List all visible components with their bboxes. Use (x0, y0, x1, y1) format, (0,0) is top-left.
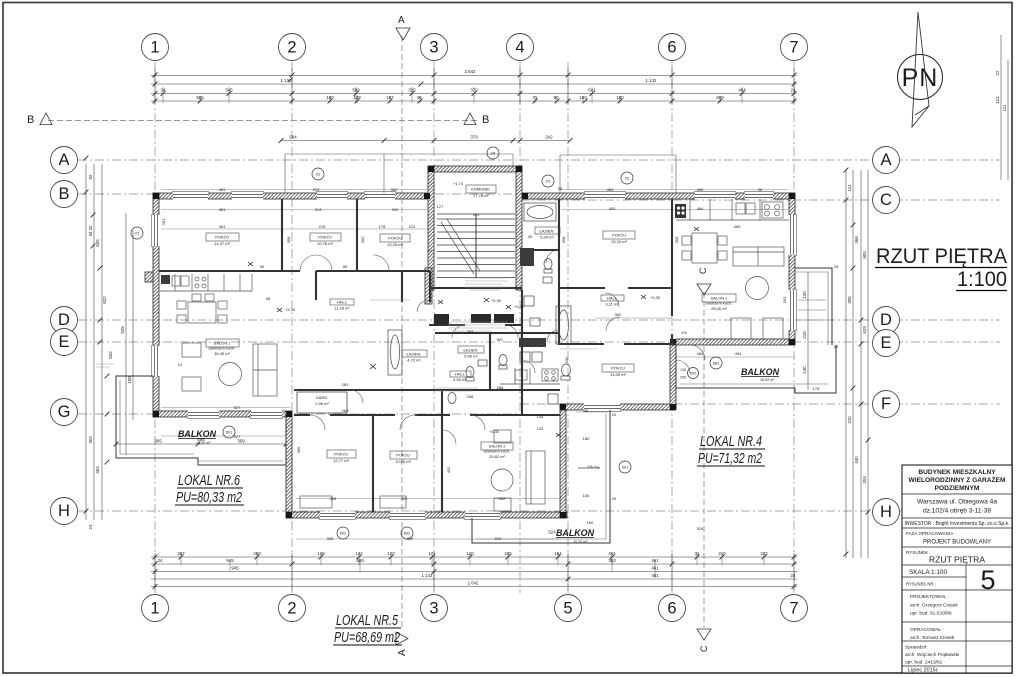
svg-text:524: 524 (697, 526, 704, 531)
svg-text:180: 180 (616, 95, 624, 100)
svg-text:ŁAZIEN.: ŁAZIEN. (406, 352, 421, 357)
BALKON label right (741, 367, 780, 382)
svg-text:24: 24 (791, 573, 796, 578)
svg-text:1 131: 1 131 (281, 78, 293, 83)
partition midblock bath row (435, 290, 560, 415)
svg-text:B: B (482, 114, 489, 126)
bubble 6 bottom (659, 595, 686, 622)
lokal4 hall bath fixtures (448, 306, 571, 404)
balcony bottom outline (472, 410, 610, 543)
svg-text:08: 08 (266, 296, 271, 301)
svg-text:325: 325 (408, 88, 416, 93)
bubble 4 top (507, 34, 534, 61)
kitchen counter lokal6 (160, 274, 252, 291)
svg-text:432: 432 (446, 466, 451, 473)
svg-text:306: 306 (327, 536, 334, 541)
svg-text:527: 527 (234, 405, 241, 410)
partition right-wing pokoj/salon (559, 287, 671, 289)
wall stair-core top (428, 166, 522, 172)
inner top dim line (281, 140, 570, 142)
svg-text:160: 160 (583, 493, 590, 498)
svg-text:H: H (880, 503, 892, 521)
svg-text:10,60 m²: 10,60 m² (395, 459, 411, 464)
svg-text:132: 132 (355, 551, 363, 556)
svg-text:F: F (881, 395, 891, 413)
svg-text:14,09 m²: 14,09 m² (610, 372, 626, 377)
svg-text:RZUT PIĘTRA: RZUT PIĘTRA (876, 244, 1008, 268)
svg-text:207: 207 (177, 551, 185, 556)
bubble 7 top (781, 34, 808, 61)
svg-text:120: 120 (387, 551, 395, 556)
svg-text:160: 160 (587, 520, 594, 525)
svg-text:187: 187 (386, 95, 394, 100)
svg-text:O3: O3 (546, 179, 551, 183)
svg-text:481: 481 (219, 207, 226, 212)
svg-text:B: B (27, 114, 34, 126)
svg-text:130: 130 (680, 368, 686, 372)
wall pier left wall (145, 272, 153, 282)
svg-text:2: 2 (287, 39, 296, 57)
balcony left dim numbers (154, 437, 245, 444)
INTERIOR (96, 147, 722, 539)
svg-text:138: 138 (353, 95, 361, 100)
wc toilet (499, 355, 507, 366)
svg-text:22: 22 (995, 70, 1000, 75)
section marker C bottom (697, 629, 711, 640)
bubble A right (873, 147, 900, 174)
balcony right outline (676, 345, 836, 393)
svg-text:359: 359 (237, 439, 245, 444)
svg-text:113: 113 (995, 96, 1000, 104)
svg-text:10,76 m²: 10,76 m² (317, 241, 333, 246)
svg-text:358: 358 (561, 236, 566, 243)
left inner dim verticals (125, 213, 127, 455)
bubble 2 bottom (279, 595, 306, 622)
svg-text:2: 2 (287, 600, 296, 618)
svg-text:GARD.: GARD. (316, 395, 329, 400)
svg-text:945: 945 (231, 566, 239, 571)
svg-text:332: 332 (564, 356, 569, 363)
structural corner columns (153, 166, 795, 518)
svg-text:204: 204 (862, 476, 867, 484)
svg-text:14,47 m²: 14,47 m² (214, 241, 230, 246)
BALKON label left (178, 429, 217, 445)
svg-text:80: 80 (343, 264, 348, 269)
svg-text:2 842: 2 842 (465, 69, 477, 74)
svg-text:461: 461 (651, 558, 659, 563)
svg-text:+3,30: +3,30 (650, 295, 661, 300)
svg-text:C: C (698, 267, 708, 274)
svg-text:D02: D02 (404, 531, 411, 535)
svg-text:127: 127 (437, 204, 444, 209)
svg-text:INWESTOR : Bright Investments: INWESTOR : Bright Investments Sp. zo.o.S… (905, 521, 1010, 527)
balcony left outline (116, 376, 286, 465)
dim ticks right (844, 168, 849, 173)
wall stair-core right (516, 166, 522, 290)
svg-text:945: 945 (226, 558, 234, 563)
svg-text:453: 453 (609, 206, 616, 211)
svg-text:E: E (880, 334, 891, 352)
svg-text:358: 358 (674, 236, 679, 243)
svg-text:7: 7 (789, 600, 798, 618)
svg-text:430: 430 (296, 446, 301, 453)
svg-text:24: 24 (791, 88, 796, 93)
svg-text:20: 20 (612, 496, 617, 501)
level mark crosses (150, 295, 646, 629)
svg-text:LOKAL NR.5: LOKAL NR.5 (336, 613, 399, 629)
svg-text:7: 7 (789, 39, 798, 57)
svg-text:11,28 m²: 11,28 m² (334, 306, 350, 311)
svg-text:111: 111 (1002, 104, 1007, 111)
svg-text:25,82 m²: 25,82 m² (489, 454, 505, 459)
dim ticks bottom (153, 555, 158, 560)
svg-text:O2: O2 (316, 172, 321, 176)
svg-text:RZUT PIĘTRA: RZUT PIĘTRA (929, 555, 985, 565)
right cluster sink (543, 277, 552, 283)
svg-text:+0,30: +0,30 (491, 298, 502, 303)
LOKAL NR.4 label (698, 434, 762, 467)
svg-text:A: A (397, 649, 408, 656)
svg-text:D02: D02 (690, 371, 697, 375)
north arrow PN (898, 55, 943, 100)
svg-text:481: 481 (219, 187, 226, 192)
svg-text:301: 301 (161, 218, 166, 225)
svg-text:HALL: HALL (455, 372, 466, 377)
washer (524, 296, 534, 306)
svg-text:15,53 m²: 15,53 m² (760, 378, 775, 382)
tiny dim numbers right rotated (802, 70, 1007, 484)
svg-text:C: C (880, 191, 892, 209)
bubble 6 top (659, 34, 686, 61)
svg-text:31: 31 (695, 551, 700, 556)
svg-text:17,78 m²: 17,78 m² (473, 193, 489, 198)
svg-text:180: 180 (583, 436, 590, 441)
svg-text:HALL: HALL (337, 300, 348, 305)
svg-text:235: 235 (504, 551, 512, 556)
stove lokal6 (195, 277, 199, 281)
svg-text:1: 1 (150, 39, 159, 57)
section line A-A vertical (401, 36, 403, 630)
svg-text:1 142: 1 142 (422, 573, 434, 578)
svg-text:242: 242 (545, 135, 553, 140)
svg-text:POKÓJ: POKÓJ (611, 366, 625, 371)
partition left-wing room1/room2 (281, 199, 283, 270)
wall right-wing top (522, 193, 795, 199)
partition stair vestibule (429, 288, 522, 325)
svg-text:LOKAL NR.4: LOKAL NR.4 (700, 434, 762, 450)
svg-text:6: 6 (667, 39, 676, 57)
grid axis B horizontal (78, 193, 520, 195)
svg-text:302: 302 (401, 496, 408, 501)
title block row lines (902, 493, 1012, 495)
svg-text:D01: D01 (622, 465, 629, 469)
LOKAL NR.6 label (176, 473, 242, 506)
svg-text:629: 629 (862, 326, 867, 334)
svg-text:POKÓJ: POKÓJ (612, 233, 626, 238)
grid axis 6 (671, 62, 673, 593)
wall lokal4 lower bottom (560, 404, 676, 410)
svg-text:305: 305 (847, 296, 852, 304)
svg-text:98: 98 (558, 186, 563, 191)
gard closet (297, 392, 347, 413)
svg-text:215: 215 (319, 224, 326, 229)
svg-text:585: 585 (196, 95, 204, 100)
svg-text:20: 20 (612, 412, 617, 417)
installation shaft dark (520, 248, 534, 266)
svg-text:10,25 m²: 10,25 m² (387, 242, 403, 247)
svg-text:SKALA 1:100: SKALA 1:100 (909, 569, 947, 576)
svg-text:305: 305 (154, 439, 162, 444)
title block frame (902, 465, 1012, 673)
LOKAL NR.5 label (334, 613, 400, 646)
dim ticks left (84, 156, 89, 161)
wall left-wing left (153, 193, 159, 417)
svg-text:HALL: HALL (607, 296, 618, 301)
window glazing salon bottom (188, 413, 282, 416)
wall bottom-wing right (560, 404, 566, 518)
svg-text:POKÓJ: POKÓJ (318, 235, 332, 240)
bubble D right (873, 307, 900, 334)
svg-text:+3,30: +3,30 (514, 304, 525, 309)
wardrobe bottom-wing room2 (380, 496, 406, 508)
svg-text:135: 135 (537, 414, 544, 419)
svg-text:609: 609 (716, 95, 724, 100)
svg-text:463: 463 (95, 466, 100, 474)
svg-text:464: 464 (697, 351, 704, 356)
svg-text:36: 36 (758, 187, 763, 192)
svg-text:250: 250 (253, 551, 261, 556)
window marker circle O2 (131, 147, 722, 539)
svg-text:842: 842 (108, 351, 113, 359)
svg-text:15,32 m²: 15,32 m² (611, 239, 627, 244)
grid axis 3 (433, 62, 435, 593)
svg-text:589: 589 (352, 88, 360, 93)
svg-text:upr. bud. 2413/61: upr. bud. 2413/61 (905, 660, 943, 666)
round table lokal5 (491, 469, 513, 491)
partition right-wing pokoj2 top (559, 199, 676, 344)
svg-text:BUDYNEK MIESZKALNY: BUDYNEK MIESZKALNY (918, 469, 996, 476)
svg-text:300: 300 (392, 207, 399, 212)
svg-text:154: 154 (554, 551, 562, 556)
partition left-wing room2/room3 (356, 199, 358, 270)
bubble B left (51, 181, 78, 208)
svg-text:268: 268 (467, 394, 474, 399)
partition below left-wing rooms (159, 270, 430, 272)
svg-text:upr. bud. 51-510/86: upr. bud. 51-510/86 (910, 611, 952, 617)
dark kitchen unit lokal4 (675, 204, 686, 218)
svg-text:+1,74: +1,74 (453, 181, 464, 186)
window glazing right wall (791, 215, 794, 330)
svg-text:POKÓJ: POKÓJ (396, 453, 410, 458)
sofa lokal4 (733, 247, 784, 266)
round table lokal4 (746, 277, 769, 300)
svg-text:210: 210 (718, 551, 726, 556)
svg-text:313: 313 (313, 187, 320, 192)
window glazing left wall (155, 215, 158, 376)
right dimension chain lines (845, 170, 847, 558)
svg-text:268: 268 (497, 385, 504, 390)
svg-text:525: 525 (120, 326, 125, 334)
bubble E left (51, 329, 78, 356)
svg-text:20: 20 (834, 264, 839, 269)
bottom dimension chain lines (151, 556, 797, 558)
svg-text:+3,30: +3,30 (285, 307, 296, 312)
svg-text:1:100: 1:100 (957, 267, 1007, 291)
svg-text:114: 114 (409, 224, 416, 229)
svg-text:263: 263 (467, 329, 474, 334)
partition bottom-wing corridor top (294, 389, 560, 391)
svg-text:48: 48 (417, 95, 422, 100)
armchairs lokal6 (182, 343, 201, 357)
svg-text:D: D (880, 311, 892, 329)
left dimension chain lines (85, 164, 87, 520)
WALLS (116, 154, 836, 543)
svg-text:171: 171 (428, 551, 436, 556)
grid axis 2 (291, 62, 293, 593)
window glazing bottom-wing bottom (320, 514, 500, 517)
grid axis H horizontal (78, 510, 1000, 512)
svg-text:461: 461 (608, 551, 616, 556)
svg-text:464: 464 (697, 206, 704, 211)
svg-text:90: 90 (260, 264, 265, 269)
svg-text:303: 303 (608, 558, 616, 563)
svg-text:aneksem kuch.: aneksem kuch. (484, 449, 511, 454)
svg-text:622: 622 (102, 296, 107, 304)
svg-text:D02: D02 (340, 531, 347, 535)
grid axis E horizontal (78, 341, 1000, 343)
dim comb stubs top (163, 87, 742, 103)
svg-text:368: 368 (854, 236, 859, 244)
sink lokal4 (736, 203, 745, 214)
svg-text:dz.102/4 obręb 3-11-38: dz.102/4 obręb 3-11-38 (923, 508, 991, 515)
svg-text:ŁAZIEN.: ŁAZIEN. (539, 229, 554, 234)
sofa lokal6 (253, 344, 277, 396)
svg-text:4,72 m²: 4,72 m² (407, 358, 421, 363)
svg-text:92: 92 (88, 174, 93, 179)
rotated inner dim numbers (161, 218, 787, 473)
svg-text:D: D (58, 311, 70, 329)
svg-text:140: 140 (802, 366, 807, 374)
svg-text:461: 461 (219, 224, 226, 229)
svg-text:36,45 m²: 36,45 m² (214, 351, 230, 356)
wall right-wing salon bottom (676, 339, 795, 345)
section marker B right (464, 113, 476, 125)
svg-text:D1: D1 (427, 248, 433, 253)
tiny technical text block vestibule (465, 278, 508, 290)
round table lokal6 (219, 363, 242, 386)
svg-text:403: 403 (88, 436, 93, 444)
bubble D left (51, 307, 78, 334)
canopy outline above entrance (285, 154, 676, 193)
svg-text:12,77 m²: 12,77 m² (333, 458, 349, 463)
svg-text:4,50 m²: 4,50 m² (453, 377, 467, 382)
svg-text:379: 379 (470, 88, 478, 93)
svg-text:1%: 1% (587, 464, 593, 469)
svg-text:+3,30: +3,30 (489, 429, 500, 434)
bubble E right (873, 330, 900, 357)
bubble 1 bottom (142, 595, 169, 622)
tub right of stair (524, 203, 556, 221)
svg-text:FAZA OPRACOWANIA :: FAZA OPRACOWANIA : (906, 531, 956, 536)
svg-text:G: G (58, 403, 71, 421)
svg-text:arch. Tomasz Ciosek: arch. Tomasz Ciosek (910, 635, 955, 641)
grid axis C horizontal (520, 199, 1000, 201)
windows: white gaps with glazing lines (152, 192, 795, 518)
svg-text:POKÓJ: POKÓJ (388, 236, 402, 241)
svg-text:PROJEKTOWAŁ :: PROJEKTOWAŁ : (910, 594, 949, 600)
wall bottom-wing bottom (286, 512, 567, 518)
svg-text:18,35 m²: 18,35 m² (196, 441, 211, 445)
section line B-B horizontal (48, 120, 478, 122)
svg-text:KOMUNIK.: KOMUNIK. (471, 187, 491, 192)
bubble H right (873, 499, 900, 526)
toilet mid (466, 367, 474, 378)
svg-text:LOKAL NR.6: LOKAL NR.6 (178, 473, 241, 489)
svg-text:379: 379 (470, 135, 478, 140)
svg-text:311: 311 (473, 212, 480, 217)
svg-text:113: 113 (847, 184, 852, 192)
svg-text:WIELORODZINNY Z GARAŻEM: WIELORODZINNY Z GARAŻEM (909, 476, 1006, 484)
svg-text:210: 210 (802, 331, 807, 339)
svg-text:527: 527 (234, 434, 241, 439)
svg-text:180: 180 (579, 95, 587, 100)
svg-text:15,20 m²: 15,20 m² (573, 540, 588, 544)
svg-text:RYSUNEK NR :: RYSUNEK NR : (906, 582, 936, 587)
svg-text:130: 130 (802, 291, 807, 299)
svg-text:Sprawdził :: Sprawdził : (905, 645, 928, 651)
right inner dim vertical (807, 272, 809, 390)
bottom dim extension verticals (154, 553, 156, 590)
stair treads (437, 214, 515, 278)
svg-text:440: 440 (854, 456, 859, 464)
svg-text:120: 120 (466, 551, 474, 556)
svg-text:461: 461 (651, 573, 659, 578)
bubble A left (51, 147, 78, 174)
svg-text:B: B (58, 185, 69, 203)
svg-text:5: 5 (980, 565, 995, 595)
svg-text:40: 40 (528, 234, 533, 239)
inner dim numbers (178, 186, 839, 541)
svg-text:71: 71 (533, 95, 538, 100)
svg-text:C: C (699, 645, 709, 652)
tiny dim numbers top (161, 69, 796, 140)
svg-text:5,34 m²: 5,34 m² (540, 235, 554, 240)
svg-text:POKÓJ: POKÓJ (215, 235, 229, 240)
svg-text:453: 453 (607, 187, 614, 192)
sofa lokal5 (526, 451, 545, 504)
bubble 7 bottom (781, 595, 808, 622)
svg-text:505: 505 (862, 251, 867, 259)
room label boxes (206, 233, 239, 241)
svg-text:525: 525 (95, 239, 100, 247)
svg-text:14: 14 (178, 362, 183, 367)
svg-text:24: 24 (158, 558, 163, 563)
svg-text:A: A (880, 151, 891, 169)
grid axis 4 (519, 62, 521, 593)
svg-text:PROJEKT BUDOWLANY: PROJEKT BUDOWLANY (923, 540, 991, 546)
DIMS (84, 35, 1008, 590)
tiny dim numbers left rotated (88, 174, 132, 529)
wall stair-core left (428, 166, 434, 290)
window sill lines (152, 192, 797, 520)
svg-text:3: 3 (429, 600, 438, 618)
extra inner tick marks top rows (114, 82, 797, 447)
svg-text:1%: 1% (681, 330, 687, 335)
section line C-C vertical (703, 292, 705, 628)
svg-text:176: 176 (813, 386, 820, 391)
interior room dim lines (161, 190, 795, 540)
svg-text:306: 306 (330, 496, 337, 501)
